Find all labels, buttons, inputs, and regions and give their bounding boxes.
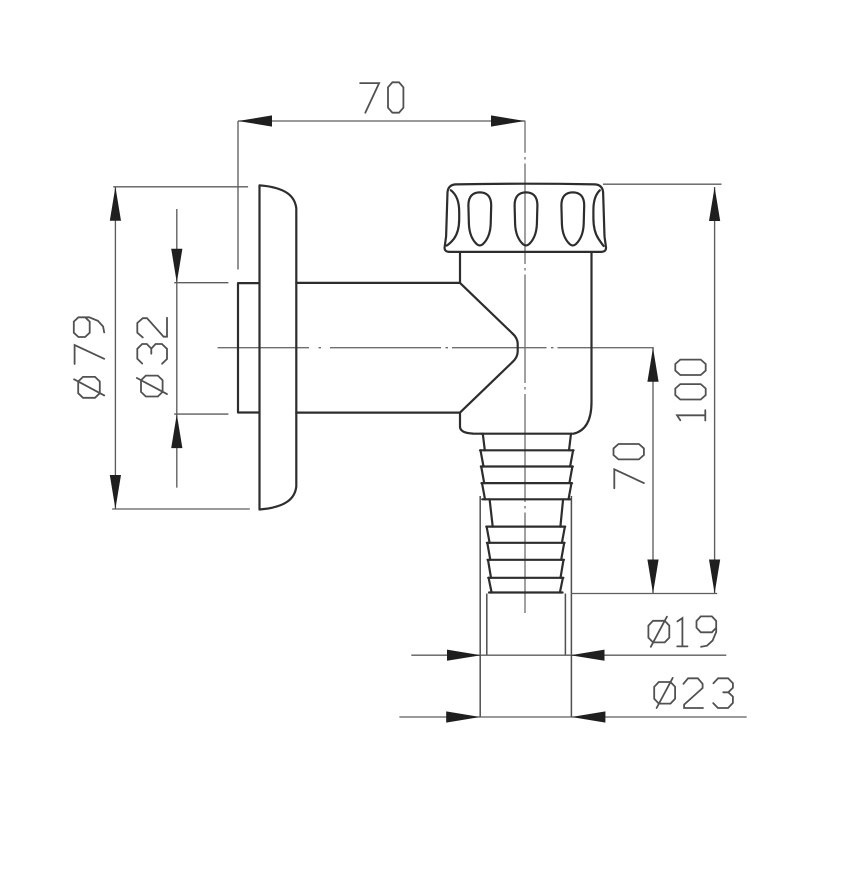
barb rib 9 sides xyxy=(489,578,563,593)
dimension 70 top: line xyxy=(238,120,525,122)
dimension Ø32: top extension xyxy=(174,282,228,284)
barb rib 6 sides xyxy=(487,527,565,543)
dimension Ø23: right arrow xyxy=(571,711,605,722)
dimension Ø79: bottom arrow xyxy=(110,475,121,509)
barb rib 2 sides xyxy=(481,450,574,466)
barb rib line 8 xyxy=(488,559,565,561)
barb rib line 3 xyxy=(481,465,573,467)
dimension Ø79: line xyxy=(114,187,116,509)
dimension 70 right: top arrow xyxy=(647,348,658,382)
barb middle smooth section sides xyxy=(490,499,563,526)
barb rib line 6 xyxy=(486,525,565,527)
dimension 70 right: label xyxy=(614,444,644,488)
dimension 100: top extension xyxy=(603,183,722,185)
dimension Ø32: label xyxy=(137,318,167,397)
dimension 100/70: bottom extension xyxy=(571,593,717,595)
knob flute 1 xyxy=(468,192,491,245)
dimension Ø19: line xyxy=(411,654,726,656)
dimension 100: bottom arrow xyxy=(709,560,720,594)
wall pipe (back pipe Ø32) xyxy=(238,283,260,412)
barb rib line 7 xyxy=(487,542,565,544)
dimension 70 top: label 70 xyxy=(360,82,403,112)
dimension 70 top: left extension line xyxy=(237,121,239,270)
hose barb shoulder line xyxy=(481,433,572,435)
knob flute left crescent xyxy=(447,190,460,245)
dimension 70 right: bottom arrow xyxy=(647,560,658,594)
dimension Ø19: left arrow xyxy=(447,650,481,661)
barb rib 3 sides xyxy=(481,467,572,484)
dimension 100: top arrow xyxy=(709,187,720,221)
barb rib line 2 xyxy=(480,449,574,451)
dimension 100: line xyxy=(714,187,716,594)
dimension Ø79: top extension xyxy=(113,186,248,188)
dimension Ø79: bottom extension xyxy=(112,508,250,510)
dimension 70 top: right arrow xyxy=(491,115,525,126)
outlet tube outer walls Ø23 xyxy=(480,496,571,717)
barb rib line 5 xyxy=(482,498,570,500)
outlet tube inner walls Ø19 xyxy=(487,594,566,656)
barb rib 8 sides xyxy=(488,560,564,578)
valve vertical body xyxy=(460,252,592,434)
knob flute 3 xyxy=(561,192,584,245)
knob flute 2 xyxy=(515,192,538,245)
dimension Ø19: label xyxy=(648,616,716,646)
barb rib 4 sides xyxy=(482,483,572,499)
knob flute right crescent xyxy=(593,190,603,246)
centerline vertical (valve axis) xyxy=(524,121,526,613)
knob outline xyxy=(445,184,606,252)
dimension Ø23: line xyxy=(399,716,746,718)
cone tip at pipe end xyxy=(460,283,518,413)
dimension Ø79: label xyxy=(74,317,104,398)
dimension Ø23: left arrow xyxy=(446,711,480,722)
dimension Ø23: label xyxy=(654,678,733,708)
barb rib line 4 xyxy=(482,482,573,484)
dimension Ø19: right arrow xyxy=(571,650,605,661)
dimension 70 right: line xyxy=(652,348,654,594)
centerline horizontal (pipe axis) xyxy=(218,347,654,349)
dimension Ø32: bottom arrow (outside, pointing up) xyxy=(171,414,182,448)
barb rib 7 sides xyxy=(487,543,564,560)
dimension 100: label xyxy=(675,360,705,421)
barb rib line 10 (bottom) xyxy=(489,591,563,593)
dimension Ø32: bottom extension xyxy=(174,413,228,415)
horizontal pipe body xyxy=(296,283,460,413)
dimension 70 top: left arrow xyxy=(238,115,272,126)
flange Ø79 xyxy=(260,185,297,509)
barb neck sides xyxy=(483,434,571,451)
dimension Ø79: top arrow xyxy=(110,187,121,221)
dimension Ø32: top arrow (outside, pointing down) xyxy=(171,249,182,283)
barb rib line 9 xyxy=(488,577,563,579)
dimension Ø32: line xyxy=(176,209,178,488)
